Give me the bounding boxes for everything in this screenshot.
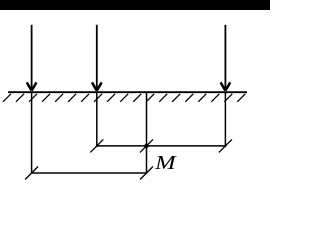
hatching <box>3 94 245 102</box>
tick at point M junction <box>140 139 153 152</box>
arrowhead tip fill <box>223 87 228 91</box>
svg-text:M: M <box>154 153 178 174</box>
extension line under F2 <box>96 92 98 147</box>
tick at lower dim left end <box>25 167 38 180</box>
upper dimension line <box>97 145 226 147</box>
tick at upper dim right end <box>219 139 232 152</box>
ground line <box>8 91 247 93</box>
point M dot <box>144 144 148 148</box>
force arrow F2 head <box>92 82 102 90</box>
arrowhead tip fill <box>29 87 34 91</box>
extension line through point M <box>146 92 148 174</box>
top black bar <box>0 0 270 10</box>
force arrow F3 head <box>221 82 231 90</box>
extension line under F3 <box>224 92 226 147</box>
force arrow F1 shaft <box>31 25 33 90</box>
tick at lower dim right end <box>140 167 153 180</box>
force arrow F3 shaft <box>224 25 226 90</box>
tick at upper dim left end <box>90 139 103 152</box>
force arrow F2 shaft <box>96 25 98 90</box>
lower dimension line <box>32 172 147 174</box>
arrowhead tip fill <box>95 87 100 91</box>
force arrow F1 head <box>27 82 37 90</box>
extension line under F1 <box>31 92 33 174</box>
